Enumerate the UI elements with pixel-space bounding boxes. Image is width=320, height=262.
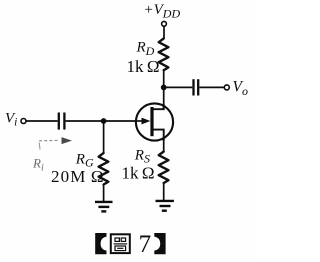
node Vi label	[5, 110, 17, 128]
node +VDD label	[144, 2, 181, 21]
wire source to RS	[163, 139, 165, 152]
terminal +VDD	[162, 21, 167, 26]
svg-text:1k Ω: 1k Ω	[127, 57, 160, 76]
wire VDD terminal to RD top	[163, 26, 165, 38]
label RS	[134, 147, 150, 165]
value 1kΩ (RS)	[122, 164, 155, 183]
capacitor Co (output)	[194, 79, 199, 95]
resistor RS	[159, 152, 169, 184]
value 1kΩ (RD)	[127, 57, 160, 76]
caption bracket left	[95, 233, 106, 254]
resistor RD	[159, 39, 169, 71]
ground (gate)	[95, 202, 113, 212]
terminal Vi	[21, 119, 26, 124]
wire input capacitor to gate	[66, 120, 137, 122]
terminal Vo	[224, 85, 229, 90]
wire Vi terminal to input capacitor	[26, 120, 58, 122]
label RD	[136, 40, 155, 58]
caption bracket right	[154, 233, 165, 254]
caption character 圖	[111, 234, 130, 253]
annotation Ri dashed arrow	[39, 137, 72, 149]
ground (source)	[156, 201, 174, 211]
transistor Q1 channel bar	[150, 107, 153, 136]
wire RG to ground	[103, 185, 105, 202]
wire output capacitor to Vo terminal	[199, 86, 224, 88]
wire RD bottom to drain node	[163, 70, 165, 109]
transistor Q1 drain lead	[152, 104, 164, 109]
transistor Q1 (JFET) circle	[136, 103, 173, 140]
node drain junction	[161, 85, 167, 91]
annotation Ri label	[32, 156, 44, 174]
transistor Q1 gate arrow	[137, 118, 151, 125]
caption numeral 7	[139, 231, 152, 258]
value 20MΩ (RG)	[51, 167, 105, 186]
wire drain node to output capacitor	[164, 86, 193, 88]
svg-text:1k Ω: 1k Ω	[122, 164, 155, 183]
svg-text:20M Ω: 20M Ω	[51, 167, 105, 186]
transistor Q1 source lead	[152, 130, 164, 141]
label RG	[75, 151, 94, 169]
wire RS to ground	[163, 183, 165, 201]
capacitor Ci (input)	[59, 113, 65, 130]
node Vo label	[233, 78, 248, 98]
wire gate junction to RG	[103, 121, 105, 153]
svg-text:7: 7	[139, 231, 152, 258]
node gate junction	[101, 118, 107, 124]
resistor RG	[99, 153, 109, 185]
